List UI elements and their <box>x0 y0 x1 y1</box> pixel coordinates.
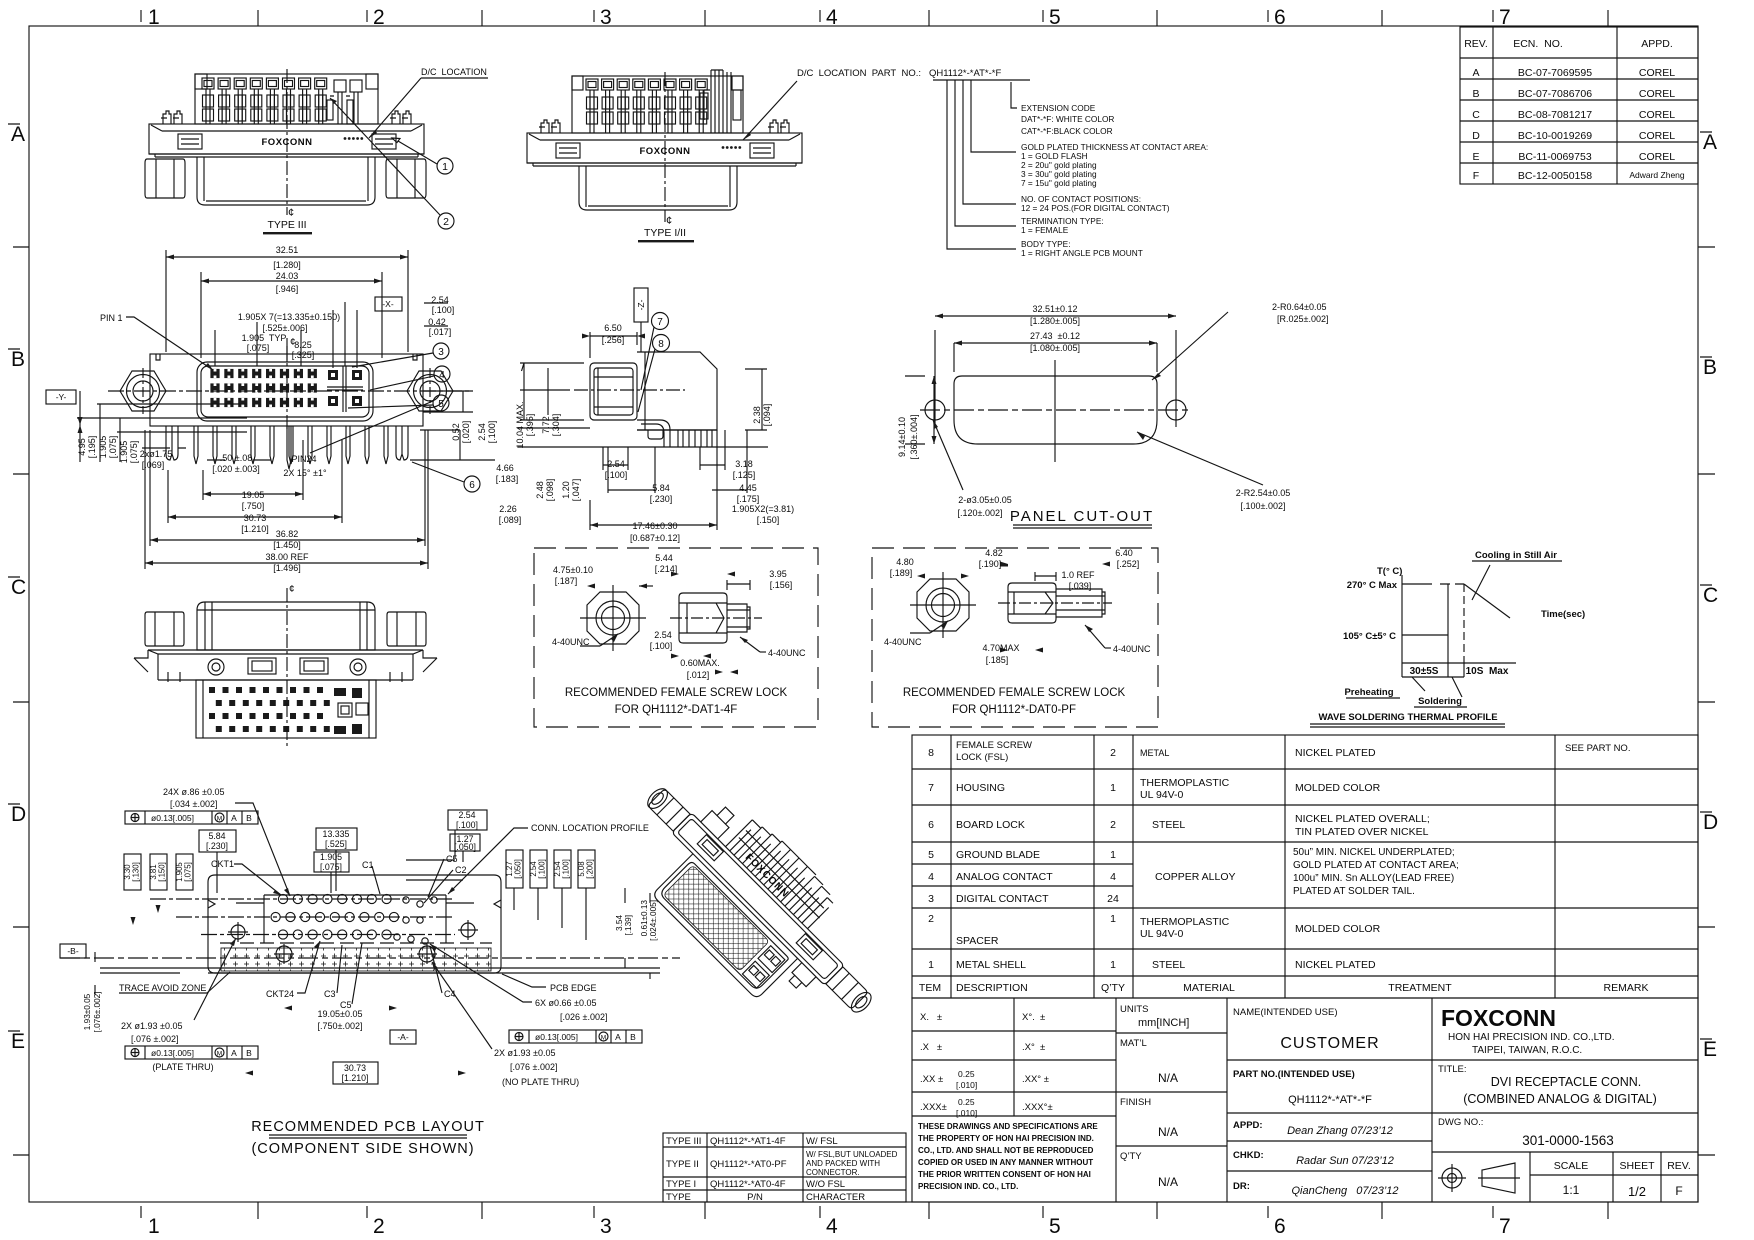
svg-text:Adward Zheng: Adward Zheng <box>1629 170 1685 180</box>
svg-text:6.50: 6.50 <box>604 323 622 333</box>
svg-text:TITLE:: TITLE: <box>1438 1064 1467 1075</box>
svg-text:3: 3 <box>600 1215 612 1238</box>
svg-text:CUSTOMER: CUSTOMER <box>1280 1035 1379 1052</box>
svg-text:CONNECTOR.: CONNECTOR. <box>806 1168 860 1177</box>
svg-text:mm[INCH]: mm[INCH] <box>1138 1017 1189 1029</box>
svg-text:COREL: COREL <box>1639 151 1675 163</box>
svg-text:[.100]: [.100] <box>650 641 673 651</box>
svg-text:6.40: 6.40 <box>1115 548 1133 558</box>
svg-text:TYPE III: TYPE III <box>267 219 306 231</box>
svg-text:A: A <box>231 1048 237 1058</box>
svg-text:2: 2 <box>928 913 934 925</box>
svg-text:ø0.13[.005]: ø0.13[.005] <box>151 1048 194 1058</box>
top shield <box>197 602 375 650</box>
D-opening <box>197 362 373 421</box>
svg-text:2: 2 <box>1110 819 1116 831</box>
svg-text:DAT*-*F: WHITE COLOR: DAT*-*F: WHITE COLOR <box>1021 114 1114 124</box>
svg-text:1: 1 <box>1110 959 1116 971</box>
left vertical dims <box>77 436 139 464</box>
balloons 3-6 <box>352 343 449 367</box>
lower contact block <box>196 680 376 738</box>
svg-text:5: 5 <box>438 399 444 410</box>
svg-text:APPD:: APPD: <box>1233 1120 1263 1131</box>
svg-text:SEE PART NO.: SEE PART NO. <box>1565 743 1630 754</box>
svg-text:BC-08-7081217: BC-08-7081217 <box>1518 109 1592 121</box>
svg-text:B: B <box>246 813 252 823</box>
svg-text:[.047]: [.047] <box>571 479 581 502</box>
boxed dims <box>199 810 487 893</box>
svg-text:C1: C1 <box>362 860 374 870</box>
svg-text:M: M <box>601 1035 606 1042</box>
flange <box>149 124 424 154</box>
svg-text:GROUND BLADE: GROUND BLADE <box>956 849 1040 861</box>
svg-text:-Y-: -Y- <box>56 392 67 402</box>
small label ticks <box>141 10 1493 22</box>
balloon 2 <box>330 98 454 229</box>
svg-text:17.46±0.30: 17.46±0.30 <box>633 521 678 531</box>
rotated boxed dims left <box>124 854 141 890</box>
svg-text:Q’TY: Q’TY <box>1101 982 1125 994</box>
svg-text:[.946]: [.946] <box>276 284 299 294</box>
svg-text:TYPE III: TYPE III <box>666 1136 701 1147</box>
dashed hidden outline <box>220 942 492 944</box>
grid numbers bottom <box>148 1215 1511 1238</box>
side view <box>1008 583 1056 623</box>
svg-text:TAIPEI, TAIWAN, R.O.C.: TAIPEI, TAIWAN, R.O.C. <box>1472 1045 1582 1056</box>
svg-text:MOLDED COLOR: MOLDED COLOR <box>1295 923 1381 935</box>
svg-text:1.905: 1.905 <box>320 852 342 862</box>
svg-text:30.73: 30.73 <box>344 1063 366 1073</box>
svg-text:[.100±.002]: [.100±.002] <box>1241 501 1286 511</box>
svg-text:19.05: 19.05 <box>242 490 265 500</box>
svg-text:[.069]: [.069] <box>142 460 165 470</box>
svg-text:0.25: 0.25 <box>958 1069 975 1079</box>
svg-text:2-R2.54±0.05: 2-R2.54±0.05 <box>1236 488 1290 498</box>
svg-text:.XXX°±: .XXX°± <box>1022 1102 1053 1113</box>
svg-text:3: 3 <box>928 893 934 905</box>
svg-text:[.020]: [.020] <box>461 421 471 444</box>
svg-text:NICKEL PLATED: NICKEL PLATED <box>1295 747 1376 759</box>
svg-text:1/2: 1/2 <box>1628 1184 1646 1199</box>
svg-text:N/A: N/A <box>1158 1175 1178 1189</box>
svg-text:BC-12-0050158: BC-12-0050158 <box>1518 170 1592 182</box>
svg-text:.50 ±.08: .50 ±.08 <box>220 453 252 463</box>
svg-text:CKT24: CKT24 <box>266 989 294 999</box>
svg-text:FOR QH1112*-DAT1-4F: FOR QH1112*-DAT1-4F <box>615 704 738 716</box>
vent right <box>372 134 396 149</box>
svg-text:DR:: DR: <box>1233 1181 1250 1192</box>
dimensions above <box>166 250 448 368</box>
svg-text:4.66: 4.66 <box>496 463 514 473</box>
svg-text:5.44: 5.44 <box>655 553 673 563</box>
pcb edge bottom <box>100 972 660 974</box>
svg-text:DVI RECEPTACLE CONN.: DVI RECEPTACLE CONN. <box>1491 1075 1642 1089</box>
projection symbol <box>1438 1163 1520 1193</box>
svg-text:4.70MAX: 4.70MAX <box>982 643 1019 653</box>
svg-text:[.525±.006]: [.525±.006] <box>263 323 308 333</box>
svg-text:DWG NO.:: DWG NO.: <box>1438 1117 1483 1128</box>
analog pins right (tall) <box>704 70 731 133</box>
svg-text:[.304]: [.304] <box>551 414 561 437</box>
svg-text:FEMALE SCREW: FEMALE SCREW <box>956 740 1032 751</box>
svg-text:7: 7 <box>1499 6 1511 29</box>
svg-text:1.20: 1.20 <box>561 481 571 499</box>
svg-text:5.84: 5.84 <box>652 483 670 493</box>
flange band <box>672 813 845 986</box>
svg-text:Radar Sun 07/23’12: Radar Sun 07/23’12 <box>1296 1155 1394 1167</box>
svg-text:W/ FSL: W/ FSL <box>806 1136 838 1147</box>
svg-text:MATERIAL: MATERIAL <box>1183 982 1235 994</box>
svg-text:[.120±.002]: [.120±.002] <box>958 508 1003 518</box>
svg-text:2: 2 <box>443 216 449 228</box>
svg-text:APPD.: APPD. <box>1641 38 1673 50</box>
svg-text:E: E <box>1703 1038 1717 1061</box>
svg-text:6: 6 <box>1274 6 1286 29</box>
svg-text:HON HAI PRECISION IND. CO.,LTD: HON HAI PRECISION IND. CO.,LTD. <box>1448 1032 1615 1043</box>
svg-text:CKT1: CKT1 <box>211 859 234 869</box>
svg-text:CHKD:: CHKD: <box>1233 1150 1264 1161</box>
svg-text:TRACE AVOID ZONE: TRACE AVOID ZONE <box>119 983 206 993</box>
svg-text:38.00 REF: 38.00 REF <box>265 552 309 562</box>
svg-text:QH1112*-*AT1-4F: QH1112*-*AT1-4F <box>710 1136 786 1147</box>
svg-text:D: D <box>1703 811 1718 834</box>
svg-text:[.200]: [.200] <box>586 859 595 879</box>
grid letters right <box>1703 131 1718 1061</box>
svg-text:Dean Zhang 07/23’12: Dean Zhang 07/23’12 <box>1287 1125 1393 1137</box>
svg-text:CO., LTD. AND SHALL NOT BE REP: CO., LTD. AND SHALL NOT BE REPRODUCED <box>918 1146 1094 1155</box>
svg-text:2X ø1.93 ±0.05: 2X ø1.93 ±0.05 <box>494 1048 555 1058</box>
svg-text:0.25: 0.25 <box>958 1097 975 1107</box>
svg-text:4-40UNC: 4-40UNC <box>1113 644 1151 654</box>
board lock posts <box>161 111 182 124</box>
svg-text:[.395]: [.395] <box>525 414 535 437</box>
svg-text:8: 8 <box>928 747 934 759</box>
svg-text:C3: C3 <box>324 989 336 999</box>
board locks <box>166 426 178 460</box>
centerline <box>286 69 288 215</box>
svg-text:EXTENSION CODE: EXTENSION CODE <box>1021 103 1096 113</box>
svg-text:THERMOPLASTIC: THERMOPLASTIC <box>1140 777 1230 789</box>
svg-text:19.05±0.05: 19.05±0.05 <box>318 1009 363 1019</box>
svg-text:2.54: 2.54 <box>607 459 625 469</box>
svg-text:PCB EDGE: PCB EDGE <box>550 983 597 993</box>
svg-text:RECOMMENDED FEMALE SCREW LOCK: RECOMMENDED FEMALE SCREW LOCK <box>565 687 788 699</box>
holes grid <box>228 894 478 964</box>
svg-text:2.54: 2.54 <box>654 630 672 640</box>
svg-text:CHARACTER: CHARACTER <box>806 1192 865 1203</box>
svg-text:STEEL: STEEL <box>1152 959 1185 971</box>
svg-text:3.95: 3.95 <box>769 569 787 579</box>
svg-text:1.93±0.05: 1.93±0.05 <box>83 993 92 1030</box>
hex nuts sides <box>145 612 184 646</box>
bent leads <box>637 420 670 447</box>
svg-text:D/C LOCATION: D/C LOCATION <box>421 67 487 77</box>
pin block outline <box>195 74 378 124</box>
analog pins right <box>334 80 346 92</box>
svg-text:[.256]: [.256] <box>602 335 625 345</box>
svg-text:[.125]: [.125] <box>733 470 756 480</box>
svg-text:[R.025±.002]: [R.025±.002] <box>1277 314 1328 324</box>
svg-text:W/O FSL: W/O FSL <box>806 1179 845 1190</box>
svg-text:A: A <box>231 813 237 823</box>
svg-text:[.100]: [.100] <box>487 421 497 444</box>
svg-text:30±5S: 30±5S <box>1410 666 1439 677</box>
svg-text:PART NO.(INTENDED USE): PART NO.(INTENDED USE) <box>1233 1069 1355 1080</box>
svg-text:(PLATE THRU): (PLATE THRU) <box>152 1062 213 1072</box>
svg-text:[1.080±.005]: [1.080±.005] <box>1030 343 1080 353</box>
svg-text:M: M <box>217 1051 222 1058</box>
svg-text:105° C±5° C: 105° C±5° C <box>1343 631 1396 642</box>
svg-text:ø0.13[.005]: ø0.13[.005] <box>535 1032 578 1042</box>
svg-text:¢: ¢ <box>290 337 296 348</box>
svg-text:[.750]: [.750] <box>242 501 265 511</box>
svg-text:[.050]: [.050] <box>514 859 523 879</box>
-Y- datum <box>46 390 76 404</box>
svg-text:F: F <box>1473 170 1479 182</box>
svg-text:24.03: 24.03 <box>276 271 299 281</box>
svg-text:[.024±.005]: [.024±.005] <box>649 900 658 941</box>
svg-text:AND PACKED WITH: AND PACKED WITH <box>806 1159 880 1168</box>
svg-text:1 = RIGHT ANGLE PCB MOUNT: 1 = RIGHT ANGLE PCB MOUNT <box>1021 248 1143 258</box>
svg-text:2.26: 2.26 <box>499 504 517 514</box>
svg-text:C: C <box>1703 584 1718 607</box>
svg-text:[0.687±0.12]: [0.687±0.12] <box>630 533 680 543</box>
svg-text:BC-10-0019269: BC-10-0019269 <box>1518 130 1592 142</box>
svg-text:D: D <box>11 803 26 826</box>
svg-text:PIN24: PIN24 <box>291 454 316 464</box>
svg-text:7.72: 7.72 <box>541 416 551 434</box>
svg-text:[.130]: [.130] <box>132 862 141 882</box>
svg-text:.X ±: .X ± <box>920 1042 942 1053</box>
svg-text:D: D <box>1472 130 1480 142</box>
svg-text:[.230]: [.230] <box>206 841 228 851</box>
svg-text:1: 1 <box>928 959 934 971</box>
hex nut left <box>145 159 185 198</box>
svg-text:UL 94V-0: UL 94V-0 <box>1140 928 1184 940</box>
svg-text:-B-: -B- <box>67 946 79 956</box>
svg-text:BC-11-0069753: BC-11-0069753 <box>1518 151 1592 163</box>
svg-text:UL 94V-0: UL 94V-0 <box>1140 789 1184 801</box>
svg-text:[1.210]: [1.210] <box>241 524 269 534</box>
svg-text:[.094]: [.094] <box>762 404 772 427</box>
svg-text:LOCK (FSL): LOCK (FSL) <box>956 752 1008 763</box>
svg-text:[.100]: [.100] <box>432 305 455 315</box>
svg-text:6: 6 <box>469 480 475 491</box>
svg-text:PIN 1: PIN 1 <box>100 313 123 323</box>
svg-text:B: B <box>1472 88 1479 100</box>
svg-text:27.43 ±0.12: 27.43 ±0.12 <box>1030 331 1080 341</box>
pcb lines <box>518 428 768 447</box>
svg-text:[.100]: [.100] <box>456 820 478 830</box>
svg-text:C: C <box>11 576 26 599</box>
svg-text:[.187]: [.187] <box>555 576 578 586</box>
svg-text:SPACER: SPACER <box>956 935 999 947</box>
svg-text:12 = 24 POS.(FOR DIGITAL CONTA: 12 = 24 POS.(FOR DIGITAL CONTACT) <box>1021 203 1170 213</box>
left boundary ticks <box>13 247 29 1155</box>
svg-text:[.075]: [.075] <box>184 862 193 882</box>
svg-text:Cooling in Still Air: Cooling in Still Air <box>1475 550 1557 561</box>
svg-text:2.54: 2.54 <box>477 423 487 441</box>
svg-text:1: 1 <box>442 161 448 173</box>
svg-text:[.034 ±.002]: [.034 ±.002] <box>170 799 217 809</box>
svg-text:10.04 MAX.: 10.04 MAX. <box>515 401 525 448</box>
svg-text:[.525]: [.525] <box>325 839 347 849</box>
svg-text:ø0.13[.005]: ø0.13[.005] <box>151 813 194 823</box>
svg-text:4.80: 4.80 <box>896 557 914 567</box>
svg-text:E: E <box>11 1030 25 1053</box>
svg-text:0.61±0.13: 0.61±0.13 <box>640 900 649 937</box>
svg-text:X°. ±: X°. ± <box>1022 1012 1045 1023</box>
svg-text:2-ø3.05±0.05: 2-ø3.05±0.05 <box>958 495 1011 505</box>
svg-text:COREL: COREL <box>1639 67 1675 79</box>
svg-text:5: 5 <box>928 849 934 861</box>
svg-text:QianCheng 07/23’12: QianCheng 07/23’12 <box>1291 1185 1398 1197</box>
svg-text:[.076 ±.002]: [.076 ±.002] <box>131 1034 178 1044</box>
svg-text:QH1112*-*AT*-*F: QH1112*-*AT*-*F <box>1288 1094 1372 1106</box>
svg-text:(COMPONENT SIDE SHOWN): (COMPONENT SIDE SHOWN) <box>251 1141 474 1157</box>
svg-text:FOXCONN: FOXCONN <box>1441 1005 1556 1031</box>
svg-text:[.750±.002]: [.750±.002] <box>318 1021 363 1031</box>
rear housing <box>590 363 637 420</box>
svg-text:REV.: REV. <box>1667 1160 1691 1172</box>
svg-text:ECN. NO.: ECN. NO. <box>1513 38 1563 50</box>
svg-text:[.230]: [.230] <box>650 494 673 504</box>
svg-text:DESCRIPTION: DESCRIPTION <box>956 982 1028 994</box>
svg-text:[.076 ±.002]: [.076 ±.002] <box>510 1062 557 1072</box>
svg-text:270° C Max: 270° C Max <box>1347 580 1398 591</box>
svg-text:[1.280±.005]: [1.280±.005] <box>1030 316 1080 326</box>
svg-text:[.195]: [.195] <box>87 436 97 459</box>
svg-text:2: 2 <box>1110 747 1116 759</box>
svg-text:1.0 REF: 1.0 REF <box>1061 570 1095 580</box>
svg-text:T(° C): T(° C) <box>1377 566 1402 577</box>
svg-text:[.360±.004]: [.360±.004] <box>909 415 919 460</box>
svg-text:(COMBINED ANALOG & DIGITAL): (COMBINED ANALOG & DIGITAL) <box>1463 1092 1657 1106</box>
svg-text:NICKEL PLATED: NICKEL PLATED <box>1295 959 1376 971</box>
svg-text:A: A <box>11 123 25 146</box>
svg-text:50u” MIN. NICKEL UNDERPLATED;: 50u” MIN. NICKEL UNDERPLATED; <box>1293 847 1455 858</box>
svg-text:4.75±0.10: 4.75±0.10 <box>553 565 593 575</box>
svg-text:[.156]: [.156] <box>770 580 793 590</box>
svg-text:3.18: 3.18 <box>735 459 753 469</box>
svg-text:(NO PLATE THRU): (NO PLATE THRU) <box>502 1077 579 1087</box>
svg-text:[.100]: [.100] <box>605 470 628 480</box>
svg-text:13.335: 13.335 <box>323 829 350 839</box>
svg-text:F: F <box>1675 1184 1682 1198</box>
svg-text:W/ FSL,BUT UNLOADED: W/ FSL,BUT UNLOADED <box>806 1150 898 1159</box>
svg-text:COREL: COREL <box>1639 109 1675 121</box>
svg-text:B: B <box>630 1032 636 1042</box>
balloon 1 <box>392 138 453 174</box>
svg-text:2.38: 2.38 <box>752 406 762 424</box>
svg-text:[1.450]: [1.450] <box>273 540 301 550</box>
C holes <box>403 897 409 903</box>
svg-text:24X ø.86 ±0.05: 24X ø.86 ±0.05 <box>163 787 224 797</box>
conn location profile step <box>236 895 474 943</box>
window cutouts <box>697 835 723 861</box>
svg-text:METAL: METAL <box>1140 748 1169 758</box>
svg-text:0.60MAX.: 0.60MAX. <box>680 658 720 668</box>
svg-text:[.017]: [.017] <box>429 327 452 337</box>
svg-text:8.25: 8.25 <box>294 340 312 350</box>
svg-text:SCALE: SCALE <box>1554 1160 1588 1172</box>
svg-text:SHEET: SHEET <box>1619 1160 1655 1172</box>
svg-text:1: 1 <box>1110 849 1116 861</box>
svg-text:5: 5 <box>1049 6 1061 29</box>
svg-text:[1.280]: [1.280] <box>273 260 301 270</box>
plastic post <box>648 430 663 439</box>
svg-text:[.252]: [.252] <box>1117 559 1140 569</box>
svg-text:MOLDED COLOR: MOLDED COLOR <box>1295 782 1381 794</box>
svg-text:[.020 ±.003]: [.020 ±.003] <box>212 464 259 474</box>
svg-text:1.905 TYP: 1.905 TYP <box>242 333 287 343</box>
svg-text:TYPE I/II: TYPE I/II <box>644 227 686 239</box>
big holes <box>231 925 245 939</box>
svg-text:1: 1 <box>148 6 160 29</box>
vent left <box>178 134 202 149</box>
connector phantom outline <box>208 875 501 973</box>
svg-text:A: A <box>1472 67 1479 79</box>
hex nut right <box>386 159 426 198</box>
svg-text:BC-07-7069595: BC-07-7069595 <box>1518 67 1592 79</box>
svg-text:7: 7 <box>657 317 663 328</box>
svg-text:WAVE SOLDERING THERMAL PROFILE: WAVE SOLDERING THERMAL PROFILE <box>1318 712 1497 723</box>
svg-text:5: 5 <box>1049 1215 1061 1238</box>
svg-text:[.150]: [.150] <box>158 862 167 882</box>
svg-text:9.14±0.10: 9.14±0.10 <box>897 417 907 457</box>
svg-text:6: 6 <box>928 819 934 831</box>
svg-text:3: 3 <box>438 347 444 358</box>
svg-text:301-0000-1563: 301-0000-1563 <box>1522 1133 1614 1148</box>
svg-text:COPIED OR USED IN ANY MANNER W: COPIED OR USED IN ANY MANNER WITHOUT <box>918 1158 1093 1167</box>
svg-text:C: C <box>1472 109 1480 121</box>
svg-text:THE PRIOR WRITTEN CONSENT OF H: THE PRIOR WRITTEN CONSENT OF HON HAI <box>918 1170 1091 1179</box>
svg-text:TREATMENT: TREATMENT <box>1388 982 1452 994</box>
svg-text:Soldering: Soldering <box>1418 696 1462 707</box>
svg-text:QH1112*-*AT0-4F: QH1112*-*AT0-4F <box>710 1179 786 1190</box>
svg-text:GOLD PLATED AT CONTACT AREA;: GOLD PLATED AT CONTACT AREA; <box>1293 860 1459 871</box>
svg-text:[.039]: [.039] <box>1069 581 1092 591</box>
svg-text:4.82: 4.82 <box>985 548 1003 558</box>
grid letters left <box>11 123 26 1053</box>
svg-text:[.139]: [.139] <box>624 915 633 936</box>
svg-text:PANEL CUT-OUT: PANEL CUT-OUT <box>1010 508 1154 525</box>
svg-text:D/C LOCATION PART NO.: QH: D/C LOCATION PART NO.: QH1112*-*AT*-*F <box>797 68 1001 79</box>
svg-text:[.189]: [.189] <box>890 568 913 578</box>
side view body <box>679 593 727 643</box>
side view dims <box>520 332 767 530</box>
middle band <box>148 650 423 654</box>
svg-text:REV.: REV. <box>1464 38 1488 50</box>
svg-text:[.026 ±.002]: [.026 ±.002] <box>560 1012 607 1022</box>
svg-text:[1.210]: [1.210] <box>342 1073 369 1083</box>
svg-text:-X-: -X- <box>382 299 394 309</box>
svg-text:36.82: 36.82 <box>276 529 299 539</box>
svg-text:[.050]: [.050] <box>454 842 476 852</box>
svg-text:[.075]: [.075] <box>108 436 118 459</box>
lower dims <box>142 430 428 569</box>
svg-text:2.48: 2.48 <box>535 481 545 499</box>
svg-text:METAL SHELL: METAL SHELL <box>956 959 1026 971</box>
svg-text:0.42: 0.42 <box>428 317 446 327</box>
svg-text:MAT’L: MAT’L <box>1120 1038 1147 1049</box>
svg-text:7: 7 <box>928 782 934 794</box>
svg-text:[.150]: [.150] <box>757 515 780 525</box>
svg-text:2X ø1.93 ±0.05: 2X ø1.93 ±0.05 <box>121 1021 182 1031</box>
svg-text:Q’TY: Q’TY <box>1120 1151 1142 1162</box>
svg-text:[.089]: [.089] <box>499 515 522 525</box>
svg-text:[1.496]: [1.496] <box>273 563 301 573</box>
